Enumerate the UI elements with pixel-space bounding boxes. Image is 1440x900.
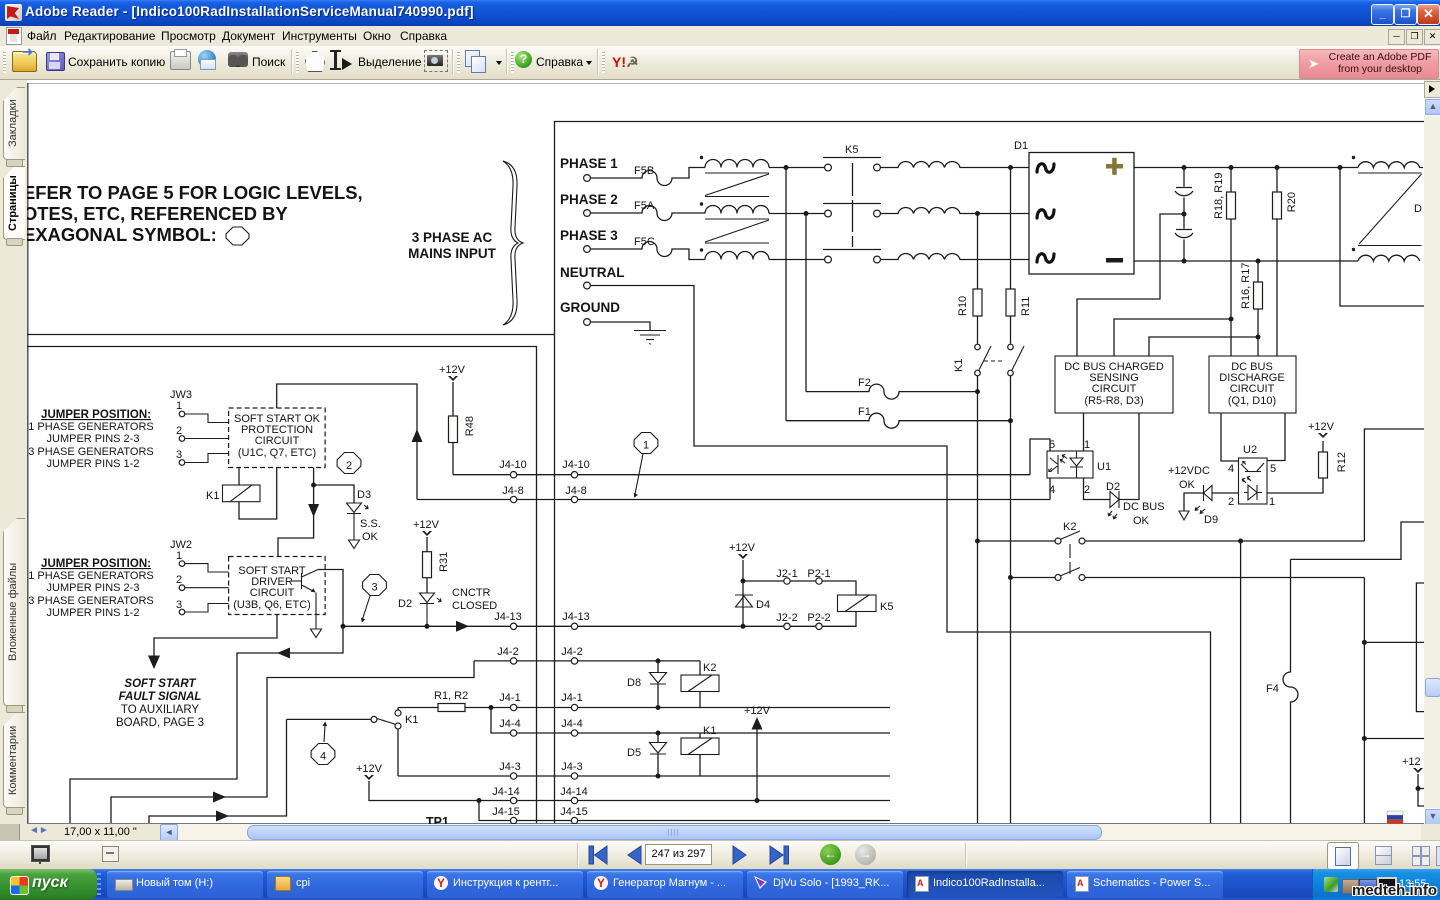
- driver collector wire: [318, 570, 343, 627]
- U1 pin2 wire: [1084, 478, 1111, 500]
- svg-text:K1: K1: [703, 725, 716, 737]
- svg-text:R16, R17: R16, R17: [1240, 263, 1252, 309]
- svg-text:D2: D2: [1106, 481, 1120, 493]
- up arrow on J4-8 riser: [412, 429, 423, 442]
- hexagonal symbol octagon: [226, 227, 249, 245]
- octagon 4 leader arrow: [324, 725, 325, 742]
- svg-text:J4-14: J4-14: [560, 786, 588, 798]
- left vertical tabs: [0, 80, 28, 824]
- svg-text:J4-4: J4-4: [499, 718, 520, 730]
- jumper position note 1: [28, 409, 154, 470]
- svg-text:+12V: +12V: [413, 519, 440, 531]
- octagon 3 leader arrow: [363, 596, 371, 619]
- choke L1 winding 1: [700, 156, 703, 159]
- phase 2 terminal: [584, 210, 591, 217]
- svg-text:F4: F4: [1266, 683, 1279, 695]
- U2 pin5 wire to discharge box: [1267, 413, 1285, 461]
- taskbar: [0, 869, 1440, 900]
- inductor phase1 out: [880, 161, 1029, 167]
- junction phase1 bus: [784, 165, 789, 170]
- J4-13 wire: [343, 625, 510, 627]
- right edge component stub: [1416, 583, 1424, 712]
- octagon 2: [337, 453, 361, 474]
- resistor R20: [1276, 168, 1278, 193]
- page top edge: [27, 83, 1424, 85]
- svg-text:CIRCUIT: CIRCUIT: [1092, 383, 1137, 395]
- wire phase1 to K5: [769, 167, 825, 169]
- svg-text:D2: D2: [398, 598, 412, 610]
- svg-text:F2: F2: [858, 377, 871, 389]
- DC BUS CHARGED SENSING CIRCUIT box: [1055, 356, 1173, 413]
- svg-text:OK: OK: [1133, 515, 1150, 527]
- U1 pin5 wire from J4-10: [1030, 439, 1050, 475]
- right riser to top: [1364, 429, 1424, 541]
- capacitor C2: [1182, 212, 1187, 217]
- bottom nav toolbar: [0, 840, 1440, 870]
- lower-left box frame: [27, 347, 537, 824]
- svg-text:OTES, ETC, REFERENCED BY: OTES, ETC, REFERENCED BY: [27, 203, 288, 224]
- svg-text:R48: R48: [464, 416, 476, 436]
- svg-text:(Q1, D10): (Q1, D10): [1228, 395, 1276, 407]
- menu bar: [0, 26, 1440, 46]
- svg-text:(R5-R8, D3): (R5-R8, D3): [1084, 395, 1143, 407]
- svg-text:MAINS INPUT: MAINS INPUT: [408, 246, 497, 261]
- svg-text:1: 1: [176, 400, 182, 412]
- svg-text:2: 2: [1228, 496, 1234, 508]
- svg-text:R18, R19: R18, R19: [1213, 173, 1225, 219]
- inductor phase3 out: [880, 253, 1029, 259]
- status row: [0, 824, 1440, 840]
- svg-text:J4-2: J4-2: [561, 646, 582, 658]
- driver emitter to ground arrow: [315, 593, 317, 630]
- svg-text:R10: R10: [957, 296, 969, 316]
- svg-text:R1, R2: R1, R2: [434, 690, 468, 702]
- svg-text:J4-2: J4-2: [497, 646, 518, 658]
- divider line upper-left: [27, 334, 554, 336]
- U1 internal LED: [1070, 452, 1083, 479]
- medteh watermark: [1352, 882, 1437, 899]
- fault branch down to driver box: [278, 485, 314, 557]
- svg-text:3: 3: [371, 582, 377, 594]
- svg-text:EXAGONAL SYMBOL:: EXAGONAL SYMBOL:: [27, 224, 217, 245]
- output transformer T1 primary: [1352, 156, 1355, 159]
- svg-text:3 PHASE GENERATORS: 3 PHASE GENERATORS: [28, 595, 154, 607]
- resistor R11: [1010, 168, 1012, 290]
- ground wire: [590, 322, 650, 330]
- bus phase1 to F1: [785, 168, 787, 421]
- U1 pin4 wire: [1049, 478, 1051, 500]
- octagon 4: [311, 744, 335, 765]
- svg-text:TO AUXILIARY: TO AUXILIARY: [121, 704, 200, 716]
- JW3 wires: [185, 414, 229, 423]
- right small panel button: [1424, 81, 1440, 98]
- K5 pole 2: [825, 210, 832, 217]
- transistor Q6: [291, 570, 318, 593]
- svg-text:J4-10: J4-10: [499, 459, 527, 471]
- annotation flag icon: [1387, 811, 1403, 824]
- svg-text:R20: R20: [1286, 192, 1298, 212]
- svg-text:JUMPER POSITION:: JUMPER POSITION:: [41, 409, 151, 421]
- ground symbol: [634, 331, 666, 345]
- svg-text:R12: R12: [1336, 452, 1348, 472]
- window title bar: [0, 0, 1440, 26]
- svg-text:D4: D4: [756, 599, 770, 611]
- svg-text:3 PHASE AC: 3 PHASE AC: [412, 230, 493, 245]
- junction to R10: [975, 211, 980, 216]
- svg-text:JUMPER PINS 2-3: JUMPER PINS 2-3: [47, 582, 140, 594]
- svg-text:J4-3: J4-3: [499, 761, 520, 773]
- svg-text:TP1: TP1: [426, 815, 449, 824]
- svg-text:J4-15: J4-15: [560, 806, 588, 818]
- svg-text:4: 4: [1228, 463, 1234, 475]
- svg-text:1: 1: [1084, 439, 1090, 451]
- cap midpoint sense wire: [1077, 214, 1184, 356]
- svg-text:J4-13: J4-13: [494, 611, 522, 623]
- svg-text:+12V: +12V: [1308, 421, 1335, 433]
- DC BUS DISCHARGE CIRCUIT box: [1209, 356, 1296, 413]
- svg-text:D8: D8: [627, 677, 641, 689]
- nav arrows: [585, 844, 815, 867]
- svg-text:OK: OK: [1179, 479, 1196, 491]
- fault signal wire 1: [70, 626, 343, 823]
- resistor R31: [423, 552, 432, 578]
- SOFT START OK PROTECTION CIRCUIT box: [229, 408, 326, 468]
- octagon 1 leader arrow: [635, 454, 643, 494]
- svg-text:J4-15: J4-15: [492, 806, 520, 818]
- page left edge: [27, 83, 29, 824]
- svg-text:K1: K1: [405, 714, 418, 726]
- svg-text:J4-4: J4-4: [561, 718, 582, 730]
- view mode buttons: [1327, 842, 1359, 870]
- svg-text:CIRCUIT: CIRCUIT: [255, 435, 300, 447]
- svg-text:5: 5: [1270, 463, 1276, 475]
- K1b to F1 junction, down: [1010, 376, 1012, 823]
- jumper position note 2: [28, 558, 154, 619]
- inductor phase2 out: [880, 207, 1029, 213]
- plus rail branch to right edge: [1340, 168, 1424, 307]
- svg-text:U2: U2: [1243, 444, 1257, 456]
- svg-text:K2: K2: [703, 662, 716, 674]
- svg-text:NEUTRAL: NEUTRAL: [560, 265, 625, 280]
- svg-text:PHASE 3: PHASE 3: [560, 228, 618, 243]
- svg-text:1: 1: [1269, 496, 1275, 508]
- svg-text:JUMPER PINS 2-3: JUMPER PINS 2-3: [47, 433, 140, 445]
- right riser down with taps: [1363, 578, 1365, 824]
- junction phase2 bus: [804, 211, 809, 216]
- ground terminal: [584, 319, 591, 326]
- choke L1 winding 3: [700, 248, 703, 251]
- octagon 1: [634, 433, 658, 454]
- svg-text:S.S.: S.S.: [360, 518, 381, 530]
- protection box top wire to J4-8: [277, 384, 417, 500]
- K1a to F2 junction, down to K2: [977, 376, 979, 823]
- choke zigzag winding 1-2: [705, 173, 769, 197]
- svg-text:J4-14: J4-14: [492, 786, 520, 798]
- svg-text:J4-13: J4-13: [562, 611, 590, 623]
- svg-text:(U1C, Q7, ETC): (U1C, Q7, ETC): [238, 447, 316, 459]
- phase 3 terminal: [584, 246, 591, 253]
- resistor R16,R17: [1257, 261, 1259, 282]
- svg-text:EFER TO PAGE 5 FOR LOGIC LEVEL: EFER TO PAGE 5 FOR LOGIC LEVELS,: [27, 182, 363, 203]
- svg-text:3 PHASE GENERATORS: 3 PHASE GENERATORS: [28, 446, 154, 458]
- big curly brace: [503, 161, 523, 325]
- svg-text:4: 4: [320, 751, 326, 763]
- svg-text:+12V: +12V: [729, 542, 756, 554]
- bus phase2 to F2: [805, 214, 807, 392]
- octagon 3: [363, 575, 387, 596]
- capacitor C1: [1176, 168, 1192, 214]
- svg-text:CIRCUIT: CIRCUIT: [250, 587, 295, 599]
- svg-text:D3: D3: [357, 489, 371, 501]
- switch K1 pole b: [984, 344, 1024, 376]
- svg-text:1 PHASE GENERATORS: 1 PHASE GENERATORS: [28, 421, 154, 433]
- svg-text:J4-8: J4-8: [565, 485, 586, 497]
- neutral wire: [590, 286, 1210, 824]
- svg-text:J4-10: J4-10: [562, 459, 590, 471]
- vertical scrollbar: [1424, 80, 1440, 824]
- svg-text:+12V: +12V: [744, 705, 771, 717]
- svg-text:D9: D9: [1204, 514, 1218, 526]
- U2 internal transistor: [1241, 461, 1264, 471]
- svg-text:JUMPER PINS 1-2: JUMPER PINS 1-2: [47, 607, 140, 619]
- DC plus rail: [1134, 167, 1358, 169]
- svg-text:DC BUS: DC BUS: [1123, 501, 1165, 513]
- LED D3: [347, 503, 362, 540]
- svg-text:+12V: +12V: [356, 763, 383, 775]
- wire phase2 to K5: [769, 213, 825, 215]
- note text REFER TO PAGE 5: [23, 182, 363, 245]
- down arrow on fault branch: [308, 504, 319, 517]
- svg-text:(U3B, Q6, ETC): (U3B, Q6, ETC): [233, 599, 311, 611]
- svg-text:K5: K5: [880, 601, 893, 613]
- neutral terminal: [584, 282, 591, 289]
- resistor R12: [1319, 452, 1328, 478]
- svg-text:PHASE 2: PHASE 2: [560, 192, 618, 207]
- svg-text:JUMPER PINS 1-2: JUMPER PINS 1-2: [47, 458, 140, 470]
- svg-text:D5: D5: [627, 747, 641, 759]
- DC minus rail: [1134, 260, 1358, 262]
- U1 pin1 wire from sensing box: [1083, 413, 1085, 451]
- U2 pin2 wire from D9: [1212, 492, 1239, 494]
- D9 anode wire and ground arrow: [1184, 493, 1204, 511]
- svg-text:D: D: [1414, 203, 1422, 215]
- svg-text:PHASE 1: PHASE 1: [560, 156, 618, 171]
- page bottom edge: [27, 823, 1424, 825]
- arrow to fault note: [154, 615, 277, 657]
- svg-text:OK: OK: [362, 531, 379, 543]
- svg-text:J4-1: J4-1: [499, 692, 520, 704]
- svg-text:FAULT SIGNAL: FAULT SIGNAL: [119, 691, 202, 703]
- fault signal wire 3: [149, 719, 287, 823]
- contactor K2 pole 2: [1011, 577, 1055, 579]
- svg-text:SOFT START: SOFT START: [124, 678, 196, 690]
- svg-text:GROUND: GROUND: [560, 300, 620, 315]
- U2 internal LED: [1244, 485, 1262, 500]
- svg-text:2: 2: [1084, 484, 1090, 496]
- svg-text:+12VDC: +12VDC: [1168, 465, 1210, 477]
- svg-text:K1: K1: [953, 359, 965, 372]
- svg-text:J4-3: J4-3: [561, 761, 582, 773]
- svg-text:+12: +12: [1402, 756, 1421, 768]
- resistor R10: [977, 214, 979, 290]
- svg-text:K5: K5: [845, 144, 858, 156]
- resistor R18,R19: [1230, 168, 1232, 193]
- SOFT START DRIVER CIRCUIT box: [229, 557, 326, 615]
- svg-text:+12V: +12V: [439, 364, 466, 376]
- JW2 wires: [185, 564, 229, 572]
- K5 pole 3: [825, 256, 832, 263]
- SOFT START FAULT SIGNAL note: [116, 678, 204, 729]
- svg-text:2: 2: [346, 460, 352, 472]
- K2 net down bus: [1240, 541, 1242, 823]
- svg-text:K2: K2: [1063, 521, 1076, 533]
- transformer zigzag: [1358, 173, 1422, 246]
- svg-text:1: 1: [176, 550, 182, 562]
- svg-text:J4-8: J4-8: [502, 485, 523, 497]
- branch to LED D3: [314, 485, 354, 503]
- junction to R11: [1008, 165, 1013, 170]
- svg-text:K1: K1: [206, 490, 219, 502]
- svg-text:BOARD, PAGE 3: BOARD, PAGE 3: [116, 717, 204, 729]
- J4-2 left route: [111, 661, 474, 823]
- output transformer T1 secondary: [1352, 248, 1355, 251]
- svg-text:J2-2: J2-2: [776, 612, 797, 624]
- svg-text:CNCTR: CNCTR: [452, 587, 491, 599]
- svg-text:R31: R31: [438, 552, 450, 572]
- main schematic frame: [555, 122, 1425, 824]
- svg-text:R11: R11: [1020, 297, 1032, 316]
- svg-text:1 PHASE GENERATORS: 1 PHASE GENERATORS: [28, 570, 154, 582]
- svg-text:CIRCUIT: CIRCUIT: [1230, 383, 1275, 395]
- protection box output junction: [313, 468, 315, 486]
- svg-text:P2-2: P2-2: [807, 612, 830, 624]
- D3 ground arrow: [349, 540, 360, 549]
- svg-text:D1: D1: [1014, 140, 1028, 152]
- svg-text:U1: U1: [1097, 461, 1111, 473]
- svg-text:2: 2: [176, 574, 182, 586]
- choke L1 winding 2: [700, 202, 703, 205]
- svg-text:F1: F1: [858, 406, 871, 418]
- svg-text:JUMPER POSITION:: JUMPER POSITION:: [41, 558, 151, 570]
- resistor R48: [449, 416, 458, 443]
- pink adobe button: [1299, 49, 1439, 79]
- U2 pin4 wire from discharge box: [1221, 413, 1239, 461]
- svg-text:J4-1: J4-1: [561, 692, 582, 704]
- wire phase3 to K5: [769, 259, 825, 261]
- phase 1 terminal: [584, 175, 591, 182]
- svg-text:CLOSED: CLOSED: [452, 600, 497, 612]
- svg-text:1: 1: [643, 440, 649, 452]
- toolbar: [0, 46, 1440, 80]
- choke zigzag winding 2-3: [705, 219, 769, 243]
- 3 PHASE AC MAINS INPUT label: [408, 230, 497, 261]
- U2 pin1 wire to R12: [1267, 478, 1323, 493]
